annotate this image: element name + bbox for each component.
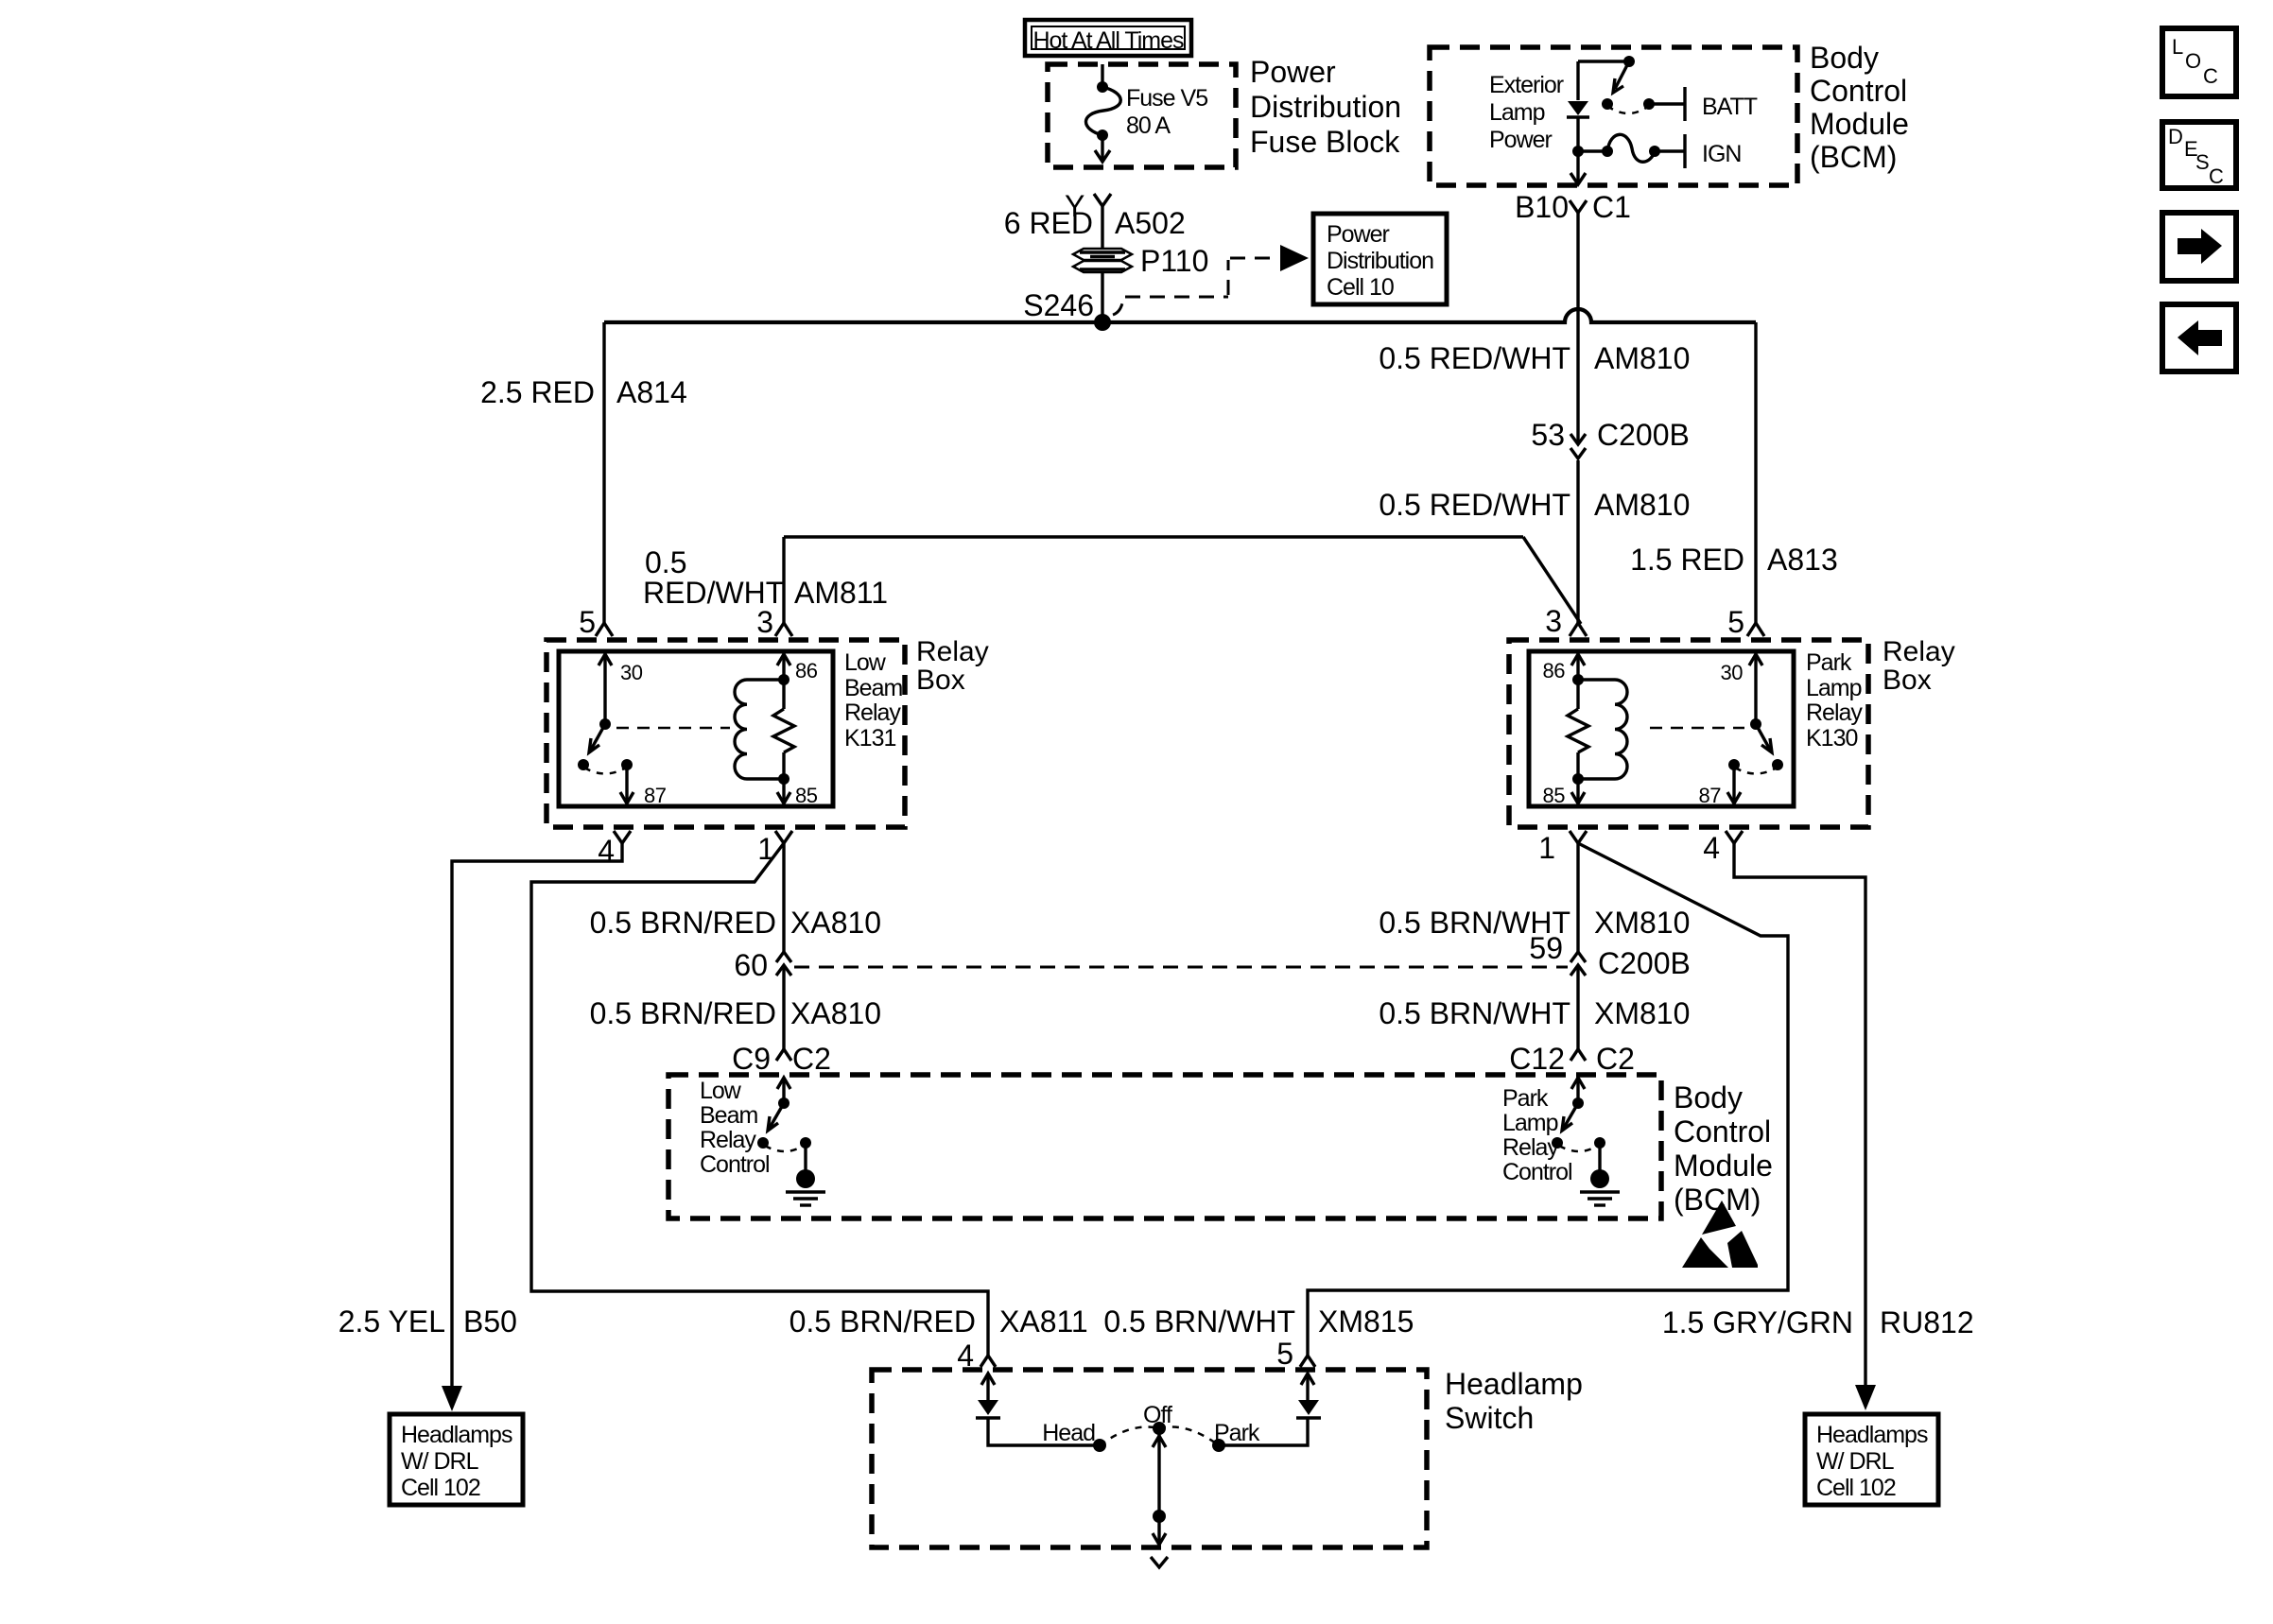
svg-text:80 A: 80 A <box>1126 112 1171 139</box>
park lamp relay K130 inner box <box>1529 651 1794 806</box>
body control module (BCM) top dashed box <box>1430 47 1797 185</box>
svg-text:C: C <box>2203 64 2218 88</box>
svg-text:C1: C1 <box>1592 190 1631 224</box>
dashed connector link 60 to 59 <box>794 966 1568 969</box>
svg-text:Relay: Relay <box>1502 1134 1559 1161</box>
svg-text:5: 5 <box>579 605 596 639</box>
svg-text:C2: C2 <box>792 1042 831 1076</box>
body control module (BCM) middle dashed box <box>668 1075 1661 1218</box>
svg-text:RU812: RU812 <box>1880 1305 1974 1339</box>
svg-text:Fuse Block: Fuse Block <box>1250 125 1400 159</box>
svg-text:0.5: 0.5 <box>645 545 686 579</box>
svg-text:Body: Body <box>1810 41 1879 75</box>
headlamps W/ DRL cell 102 box (left) <box>390 1414 523 1505</box>
svg-text:Switch: Switch <box>1445 1401 1534 1435</box>
nav icon LOC <box>2162 28 2236 96</box>
wire AM811 0.5 RED/WHT (left relay pin 3 to right relay pin 3) <box>643 537 1581 624</box>
nav icon DESC <box>2162 122 2236 188</box>
svg-text:Low: Low <box>844 649 887 676</box>
relay box right title <box>1883 636 1955 696</box>
svg-text:C2: C2 <box>1596 1042 1635 1076</box>
head contact <box>1042 1420 1106 1452</box>
svg-text:4: 4 <box>957 1339 974 1373</box>
svg-text:Beam: Beam <box>844 675 902 701</box>
dashed reference arrow to Power Distribution Cell 10 <box>1113 245 1309 315</box>
BCM output arrow at bottom <box>1570 151 1586 184</box>
svg-text:Lamp: Lamp <box>1806 675 1862 701</box>
relay terminal 30 (right) <box>1721 654 1762 724</box>
svg-text:Distribution: Distribution <box>1327 248 1433 274</box>
svg-text:A814: A814 <box>616 375 687 409</box>
pin 3 connector (right relay) <box>1545 604 1587 638</box>
svg-text:0.5 BRN/RED: 0.5 BRN/RED <box>590 996 776 1030</box>
svg-text:Cell 10: Cell 10 <box>1327 274 1394 301</box>
svg-text:AM810: AM810 <box>1594 341 1690 375</box>
svg-text:Control: Control <box>700 1151 770 1178</box>
BCM internal switch to BATT <box>1602 56 1758 121</box>
svg-text:87: 87 <box>644 784 667 807</box>
svg-text:Distribution: Distribution <box>1250 90 1401 124</box>
svg-text:Box: Box <box>1883 665 1932 696</box>
park lamp relay control label <box>1502 1085 1572 1185</box>
relay box left: dashed enclosure <box>547 640 905 827</box>
svg-text:D: D <box>2168 125 2182 148</box>
connector B10 / C1 <box>1515 190 1631 224</box>
connector C9 / C2 <box>732 1042 831 1076</box>
relay box right: dashed enclosure <box>1509 640 1868 827</box>
svg-text:K130: K130 <box>1806 725 1857 752</box>
svg-text:5: 5 <box>1276 1337 1293 1371</box>
svg-text:1.5 RED: 1.5 RED <box>1630 543 1744 577</box>
in-line connector 59 C200B (right) <box>1529 931 1690 980</box>
svg-text:Control: Control <box>1502 1159 1572 1185</box>
relay terminal 86 / 85 line with resistor (left) <box>773 654 818 807</box>
relay terminal 86 / 85 line with resistor (right) <box>1543 654 1588 807</box>
svg-text:S246: S246 <box>1023 288 1094 322</box>
relay coil (right) <box>1578 680 1627 779</box>
svg-text:S: S <box>2195 150 2209 174</box>
svg-text:K131: K131 <box>844 725 895 752</box>
svg-text:Beam: Beam <box>700 1102 757 1129</box>
svg-text:2.5 YEL: 2.5 YEL <box>338 1304 445 1339</box>
svg-text:C: C <box>2209 164 2224 188</box>
wire XA811 0.5 BRN/RED (left relay pin 1 to headlamp switch pin 4) <box>531 843 1088 1356</box>
ground (park lamp relay control) <box>1580 1137 1620 1205</box>
park contact <box>1212 1420 1260 1452</box>
svg-text:XA810: XA810 <box>790 906 881 940</box>
svg-text:0.5 BRN/RED: 0.5 BRN/RED <box>789 1304 976 1339</box>
svg-text:87: 87 <box>1699 784 1722 807</box>
svg-text:L: L <box>2172 35 2183 59</box>
headlamp switch wiper common leg <box>1151 1428 1168 1567</box>
svg-text:IGN: IGN <box>1702 141 1741 167</box>
svg-text:A502: A502 <box>1115 206 1186 240</box>
relay box left title <box>916 636 989 696</box>
wire XM810 lower (59 to C12) <box>1379 966 1690 1049</box>
fuse block title <box>1250 55 1401 159</box>
low beam relay control label <box>700 1078 770 1178</box>
svg-text:59: 59 <box>1529 931 1563 965</box>
svg-text:Headlamps: Headlamps <box>1816 1422 1928 1448</box>
svg-text:(BCM): (BCM) <box>1810 140 1897 174</box>
wire A502 6 RED labels <box>1004 206 1186 240</box>
svg-text:6 RED: 6 RED <box>1004 206 1093 240</box>
svg-text:B10: B10 <box>1515 190 1569 224</box>
svg-text:W/ DRL: W/ DRL <box>1816 1448 1895 1475</box>
pin 4 connector (right relay) <box>1703 831 1743 865</box>
svg-text:Head: Head <box>1042 1420 1095 1446</box>
svg-text:0.5 RED/WHT: 0.5 RED/WHT <box>1379 341 1570 375</box>
svg-text:XM810: XM810 <box>1594 906 1690 940</box>
svg-text:Relay: Relay <box>700 1127 756 1153</box>
svg-text:W/ DRL: W/ DRL <box>401 1448 479 1475</box>
svg-text:85: 85 <box>795 784 818 807</box>
power distribution fuse block dashed box <box>1048 64 1236 167</box>
svg-text:Low: Low <box>700 1078 742 1104</box>
headlamp switch dashed box <box>872 1370 1427 1547</box>
pin 5 connector (right relay) <box>1727 605 1764 639</box>
wire XM810 0.5 BRN/WHT (right relay pin 1 down to BCM C12) <box>1379 843 1690 952</box>
svg-text:Box: Box <box>916 665 965 696</box>
wire B50 2.5 YEL (left relay pin 4 to headlamps) <box>338 843 622 1411</box>
ground (low beam relay control) <box>786 1137 825 1205</box>
svg-text:Exterior: Exterior <box>1489 72 1564 98</box>
svg-text:Relay: Relay <box>916 636 989 667</box>
wire AM810 0.5 RED/WHT (C200B to relay pin 3) <box>1379 460 1690 623</box>
headlamp switch title <box>1445 1367 1583 1435</box>
relay coil link dashes (right) <box>1650 727 1744 730</box>
svg-text:Power: Power <box>1250 55 1336 89</box>
svg-text:30: 30 <box>620 661 643 684</box>
wire A813 1.5 RED (right branch down to relay pin 5) <box>1630 322 1838 623</box>
headlamp switch head-side diode <box>976 1373 1100 1445</box>
svg-text:C200B: C200B <box>1598 946 1691 980</box>
svg-text:53: 53 <box>1531 418 1565 452</box>
nav icon arrow right <box>2162 213 2236 281</box>
svg-text:C12: C12 <box>1509 1042 1565 1076</box>
svg-text:30: 30 <box>1721 661 1744 684</box>
park lamp relay control switch <box>1552 1078 1598 1151</box>
switch wiper dashed arcs <box>1100 1426 1219 1445</box>
svg-text:Fuse V5: Fuse V5 <box>1126 85 1207 112</box>
wire from P110 to S246 <box>1101 272 1103 322</box>
exterior lamp power label <box>1489 72 1564 153</box>
svg-text:Lamp: Lamp <box>1489 99 1545 126</box>
svg-text:Park: Park <box>1502 1085 1549 1112</box>
svg-text:Cell 102: Cell 102 <box>1816 1475 1896 1501</box>
svg-text:5: 5 <box>1727 605 1744 639</box>
svg-text:Cell 102: Cell 102 <box>401 1475 480 1501</box>
svg-text:85: 85 <box>1543 784 1566 807</box>
wire XA810 0.5 BRN/RED (left relay pin 1 down to BCM C9) <box>590 843 881 952</box>
pin 1 connector (right relay) <box>1538 831 1587 865</box>
relay coil (left) <box>735 680 784 779</box>
connector Y (fuse output) <box>1065 189 1111 250</box>
in-line connector 60 C200B (left) <box>734 948 791 982</box>
pin 4 connector (headlamp switch) <box>957 1339 996 1373</box>
svg-text:1: 1 <box>1538 831 1555 865</box>
splice S246 <box>1023 288 1111 331</box>
headlamp switch park-side diode <box>1219 1373 1321 1445</box>
svg-text:3: 3 <box>756 605 773 639</box>
svg-text:A813: A813 <box>1767 543 1838 577</box>
ESD sensitive device symbol <box>1682 1201 1758 1268</box>
connector C12 / C2 <box>1509 1042 1635 1076</box>
svg-text:86: 86 <box>795 659 818 682</box>
svg-text:0.5 BRN/RED: 0.5 BRN/RED <box>590 906 776 940</box>
wire XM815 0.5 BRN/WHT (right relay pin 1 to headlamp switch pin 5) <box>1103 843 1788 1356</box>
park lamp relay name <box>1806 649 1863 752</box>
off contact <box>1143 1402 1172 1435</box>
wire XA810 lower (60 to C9) <box>590 966 881 1049</box>
svg-text:Power: Power <box>1327 221 1390 248</box>
grommet P110 <box>1073 244 1208 278</box>
pin 5 connector (headlamp switch) <box>1276 1337 1315 1371</box>
svg-text:Lamp: Lamp <box>1502 1110 1558 1136</box>
BCM middle title <box>1674 1080 1773 1217</box>
svg-text:4: 4 <box>1703 831 1720 865</box>
reference box Power Distribution Cell 10 <box>1313 214 1447 304</box>
svg-text:Module: Module <box>1810 107 1909 141</box>
svg-text:XM815: XM815 <box>1318 1304 1414 1339</box>
pin 5 connector (left relay) <box>579 605 613 639</box>
svg-text:C9: C9 <box>732 1042 771 1076</box>
svg-text:Hot At All Times: Hot At All Times <box>1032 27 1184 54</box>
wire AM810 0.5 RED/WHT (BCM to C200B) <box>1379 213 1690 443</box>
svg-text:3: 3 <box>1545 604 1562 638</box>
svg-text:60: 60 <box>734 948 768 982</box>
svg-text:O: O <box>2185 49 2201 73</box>
low beam relay name <box>844 649 902 752</box>
low beam relay K131 inner box <box>559 651 833 806</box>
pin 1 connector (left relay) <box>757 831 792 866</box>
relay coil link dashes (left) <box>616 727 730 730</box>
relay terminal 87 (left) <box>620 759 667 807</box>
svg-text:BATT: BATT <box>1702 94 1758 120</box>
BCM internal feed wire <box>1578 61 1629 100</box>
svg-text:Module: Module <box>1674 1149 1773 1183</box>
fuse V5 80 A <box>1086 64 1208 162</box>
pin 4 connector (left relay) <box>598 831 631 868</box>
relay switch (right) <box>1735 718 1783 774</box>
wire RU812 1.5 GRY/GRN (right relay pin 4 to headlamps) <box>1662 843 1974 1410</box>
svg-text:XM810: XM810 <box>1594 996 1690 1030</box>
svg-text:0.5 BRN/WHT: 0.5 BRN/WHT <box>1379 996 1570 1030</box>
svg-text:Headlamps: Headlamps <box>401 1422 512 1448</box>
relay terminal 87 (right) <box>1699 759 1741 807</box>
headlamps W/ DRL cell 102 box (right) <box>1805 1414 1938 1505</box>
svg-text:Relay: Relay <box>844 700 901 726</box>
svg-text:B50: B50 <box>463 1304 517 1339</box>
pin 3 connector (left relay) <box>756 605 792 639</box>
BCM internal fused feed to IGN <box>1572 134 1741 168</box>
svg-text:2.5 RED: 2.5 RED <box>480 375 595 409</box>
nav icon arrow left <box>2162 304 2236 371</box>
BCM top title <box>1810 41 1909 174</box>
svg-text:Control: Control <box>1810 74 1907 108</box>
svg-text:XA811: XA811 <box>999 1304 1088 1339</box>
svg-text:Power: Power <box>1489 127 1553 153</box>
svg-text:86: 86 <box>1543 659 1566 682</box>
relay switch (left) <box>578 718 626 774</box>
svg-text:AM810: AM810 <box>1594 488 1690 522</box>
svg-text:AM811: AM811 <box>794 576 888 610</box>
svg-text:Body: Body <box>1674 1080 1743 1114</box>
svg-text:Relay: Relay <box>1883 636 1955 667</box>
in-line connector 53 C200B <box>1531 418 1689 458</box>
label box "Hot At All Times" <box>1025 20 1191 56</box>
svg-text:Headlamp: Headlamp <box>1445 1367 1583 1401</box>
svg-text:0.5 BRN/WHT: 0.5 BRN/WHT <box>1103 1304 1295 1339</box>
svg-text:Control: Control <box>1674 1114 1771 1149</box>
svg-text:XA810: XA810 <box>790 996 881 1030</box>
svg-text:1.5 GRY/GRN: 1.5 GRY/GRN <box>1662 1305 1853 1339</box>
svg-text:C200B: C200B <box>1597 418 1690 452</box>
svg-text:0.5 RED/WHT: 0.5 RED/WHT <box>1379 488 1570 522</box>
low beam relay control switch <box>757 1078 804 1151</box>
relay terminal 30 (left) <box>599 654 643 724</box>
svg-text:P110: P110 <box>1140 244 1208 278</box>
wire A814 2.5 RED (left branch down to relay pin 5) <box>480 322 687 623</box>
svg-text:Relay: Relay <box>1806 700 1863 726</box>
diode (exterior lamp power) <box>1567 101 1589 151</box>
svg-text:Park: Park <box>1806 649 1852 676</box>
bus wire from S246 (with hop over AM810 wire) <box>604 309 1756 322</box>
